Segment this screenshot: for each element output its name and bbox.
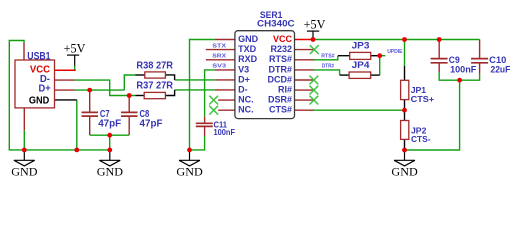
svg-text:VCC: VCC <box>273 34 293 44</box>
svg-text:NC.: NC. <box>238 105 254 115</box>
svg-text:DTR#: DTR# <box>268 64 292 74</box>
svg-text:DSR#: DSR# <box>268 94 292 104</box>
svg-text:RXD: RXD <box>238 54 258 64</box>
svg-text:47pF: 47pF <box>98 119 121 130</box>
svg-text:STX: STX <box>212 43 226 49</box>
svg-text:DTR#: DTR# <box>322 64 334 70</box>
svg-text:JP4: JP4 <box>352 60 371 70</box>
svg-text:CTS+: CTS+ <box>411 94 435 104</box>
svg-text:GND: GND <box>391 164 418 178</box>
svg-text:R38 27R: R38 27R <box>136 60 173 71</box>
svg-text:C9: C9 <box>449 55 460 65</box>
svg-text:GND: GND <box>11 164 38 178</box>
svg-text:V3: V3 <box>238 64 249 74</box>
svg-text:CTS-: CTS- <box>411 134 431 144</box>
svg-text:100nF: 100nF <box>214 128 236 137</box>
svg-text:JP3: JP3 <box>352 40 370 50</box>
svg-text:TXD: TXD <box>238 44 257 54</box>
svg-text:C10: C10 <box>489 55 506 65</box>
svg-text:DCD#: DCD# <box>267 74 292 84</box>
svg-text:+5V: +5V <box>64 41 86 56</box>
svg-text:D+: D+ <box>39 83 51 95</box>
svg-text:R37 27R: R37 27R <box>136 80 173 91</box>
svg-text:GND: GND <box>97 164 124 178</box>
svg-text:R232: R232 <box>270 44 292 54</box>
svg-text:GND: GND <box>29 95 50 107</box>
svg-text:CH340C: CH340C <box>257 19 295 29</box>
svg-text:RI#: RI# <box>278 84 292 94</box>
svg-text:100nF: 100nF <box>450 64 477 74</box>
svg-text:D+: D+ <box>238 74 250 84</box>
svg-text:CTS#: CTS# <box>269 105 292 115</box>
svg-text:SRX: SRX <box>212 54 226 60</box>
svg-text:D-: D- <box>238 84 248 94</box>
svg-text:SV3: SV3 <box>212 64 227 70</box>
svg-text:RTS#: RTS# <box>321 54 334 60</box>
svg-text:UPDIE: UPDIE <box>387 49 403 55</box>
svg-text:22uF: 22uF <box>491 64 511 74</box>
svg-text:+5V: +5V <box>304 17 326 32</box>
svg-text:RTS#: RTS# <box>269 54 292 64</box>
svg-text:GND: GND <box>176 164 203 178</box>
svg-text:47pF: 47pF <box>140 119 163 130</box>
svg-text:USB1: USB1 <box>27 50 50 62</box>
svg-text:GND: GND <box>238 34 259 44</box>
svg-text:NC.: NC. <box>238 94 254 104</box>
